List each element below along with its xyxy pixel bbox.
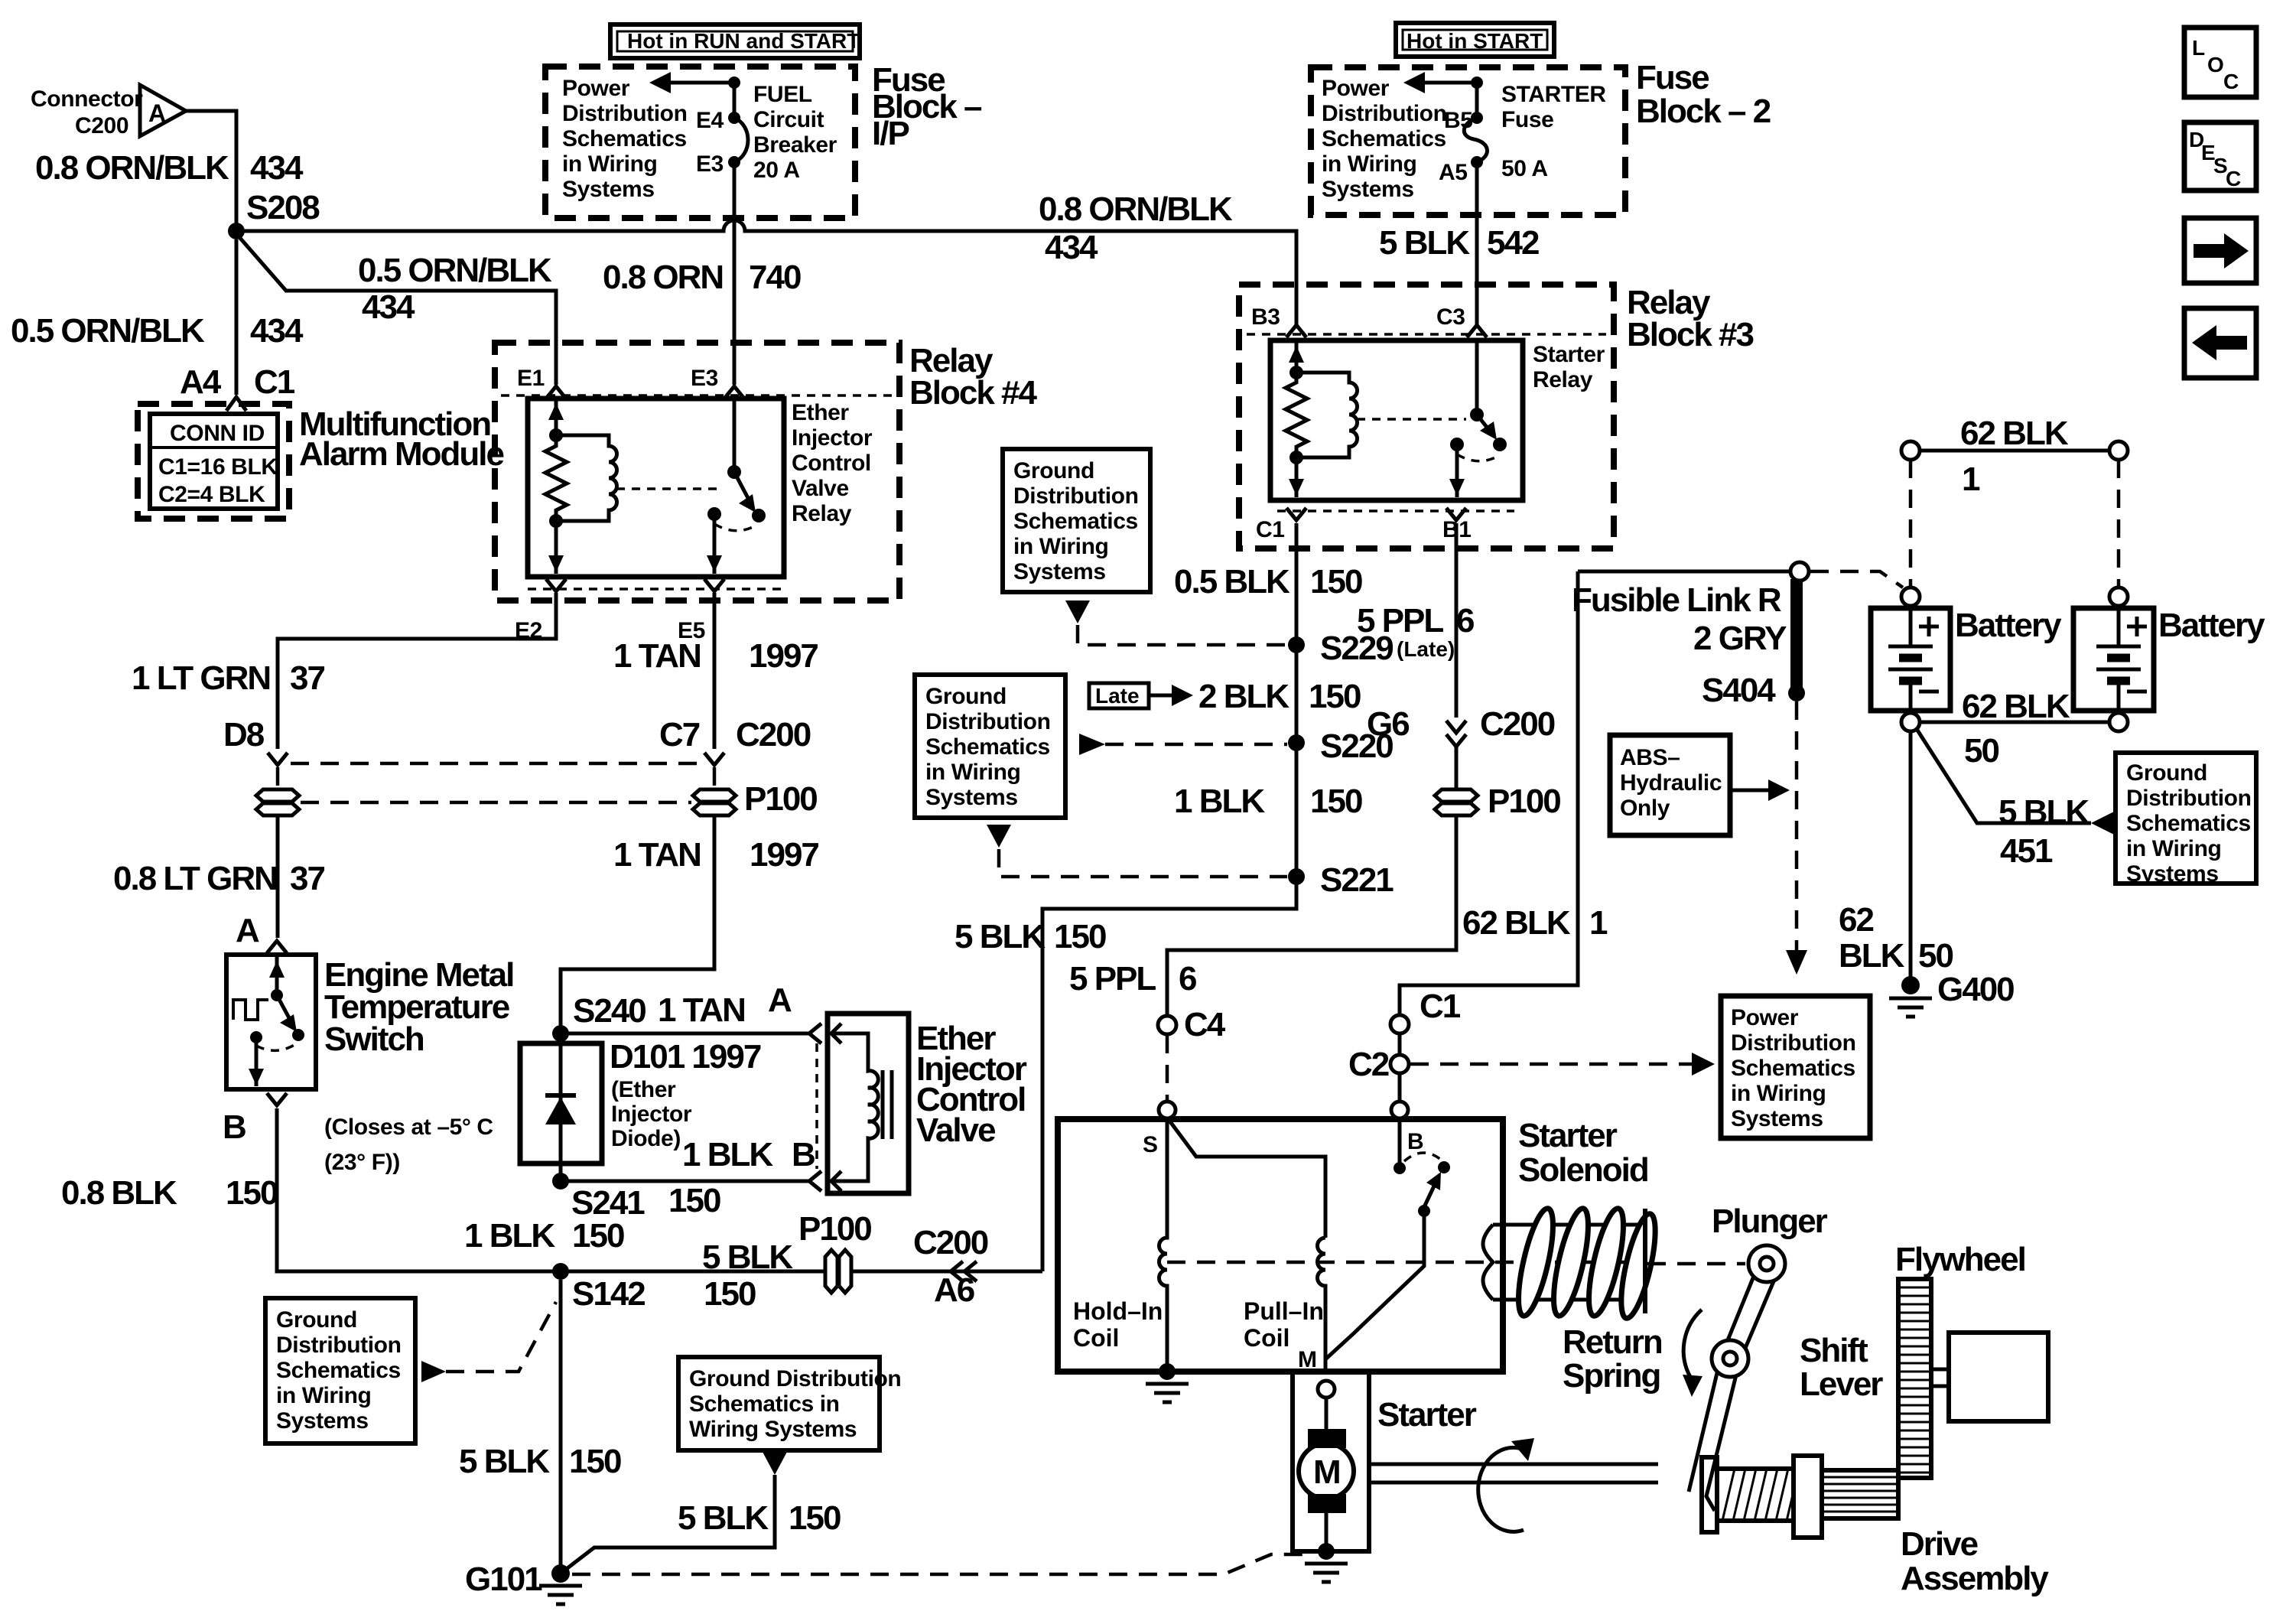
svg-text:Ether: Ether bbox=[792, 400, 849, 425]
svg-text:6: 6 bbox=[1456, 602, 1474, 640]
svg-text:0.8 LT GRN: 0.8 LT GRN bbox=[113, 860, 277, 897]
ground distribution box bottom right bbox=[678, 1357, 880, 1450]
arrow to power distribution bbox=[1471, 76, 1483, 89]
svg-text:37: 37 bbox=[290, 659, 324, 697]
svg-text:150: 150 bbox=[1310, 563, 1362, 600]
svg-text:Injector: Injector bbox=[611, 1102, 692, 1127]
svg-text:Battery: Battery bbox=[2158, 607, 2265, 644]
svg-text:1 LT GRN: 1 LT GRN bbox=[132, 659, 270, 697]
svg-text:0.8 ORN/BLK: 0.8 ORN/BLK bbox=[35, 149, 229, 187]
svg-text:0.5 ORN/BLK: 0.5 ORN/BLK bbox=[358, 252, 552, 289]
svg-text:Battery: Battery bbox=[1955, 607, 2062, 644]
wire 1 TAN A to valve pin A bbox=[561, 1032, 809, 1036]
svg-text:Schematics in: Schematics in bbox=[689, 1391, 840, 1417]
svg-text:P100: P100 bbox=[744, 780, 817, 818]
svg-text:BLK: BLK bbox=[1839, 937, 1905, 975]
svg-text:in Wiring: in Wiring bbox=[1013, 534, 1108, 559]
resistor bbox=[545, 435, 567, 521]
wire 5 BLK 451 bbox=[1917, 729, 2091, 823]
svg-text:1: 1 bbox=[1589, 904, 1608, 942]
curved arrow bbox=[1683, 1310, 1702, 1377]
right arrow box bbox=[2184, 218, 2256, 283]
switch internals bbox=[275, 955, 279, 995]
svg-text:S142: S142 bbox=[572, 1275, 645, 1313]
svg-text:M: M bbox=[1298, 1347, 1317, 1372]
svg-text:D101 1997: D101 1997 bbox=[610, 1038, 761, 1076]
drive shaft bbox=[1369, 1463, 1658, 1466]
connector C2 bbox=[1390, 1055, 1409, 1073]
dashed from G101 to starter ground bbox=[572, 1554, 1305, 1574]
left arrow box bbox=[2184, 308, 2256, 378]
svg-text:L: L bbox=[2192, 36, 2205, 60]
SEC5 bbox=[1058, 1102, 1648, 1402]
battery 1 bbox=[1901, 587, 1920, 606]
drive assembly bbox=[1702, 1457, 1717, 1532]
svg-text:Fuse: Fuse bbox=[1501, 107, 1553, 132]
svg-text:S208: S208 bbox=[246, 189, 320, 226]
node S221 bbox=[1288, 868, 1305, 885]
connector C200 triangle A bbox=[140, 85, 186, 136]
ground G101 bbox=[551, 1564, 570, 1583]
svg-text:5 BLK: 5 BLK bbox=[1379, 224, 1470, 262]
relay coil side E1-E2 bbox=[554, 399, 558, 435]
svg-text:Valve: Valve bbox=[792, 476, 849, 501]
svg-text:1997: 1997 bbox=[750, 836, 818, 874]
svg-text:M: M bbox=[1313, 1453, 1340, 1491]
battery top wire 62 BLK 1 bbox=[1901, 441, 1920, 460]
SEC1 bbox=[495, 342, 1038, 643]
svg-text:Alarm Module: Alarm Module bbox=[299, 435, 503, 473]
svg-text:G6: G6 bbox=[1367, 705, 1409, 743]
mechanical dashed link bbox=[1167, 1261, 1637, 1264]
svg-text:P100: P100 bbox=[798, 1210, 871, 1248]
ground distribution box 1 bbox=[1003, 449, 1150, 592]
svg-text:E3: E3 bbox=[691, 366, 718, 391]
svg-text:740: 740 bbox=[749, 259, 801, 296]
svg-text:Systems: Systems bbox=[925, 785, 1018, 810]
svg-text:S404: S404 bbox=[1702, 672, 1776, 709]
conn id box bbox=[150, 414, 278, 509]
multifunction alarm module dashed box bbox=[138, 404, 289, 519]
svg-text:Distribution: Distribution bbox=[1322, 101, 1447, 126]
svg-text:C200: C200 bbox=[913, 1224, 988, 1261]
node S142 bbox=[552, 1263, 569, 1280]
svg-text:B3: B3 bbox=[1251, 304, 1280, 330]
svg-text:1: 1 bbox=[1962, 461, 1980, 498]
svg-text:C3: C3 bbox=[1436, 304, 1465, 330]
svg-text:Only: Only bbox=[1620, 796, 1670, 821]
relay coil side B3-C1 bbox=[1295, 340, 1299, 373]
fusible link bar bbox=[1790, 579, 1803, 688]
svg-text:A5: A5 bbox=[1439, 160, 1468, 185]
svg-text:Coil: Coil bbox=[1244, 1324, 1289, 1352]
svg-text:Schematics: Schematics bbox=[1731, 1056, 1855, 1081]
svg-text:6: 6 bbox=[1179, 960, 1196, 998]
fuse block 2 dashed box bbox=[1311, 67, 1625, 215]
wire down to G101, 5 BLK 150 bbox=[559, 1280, 563, 1568]
svg-text:Plunger: Plunger bbox=[1712, 1203, 1828, 1240]
svg-text:Schematics: Schematics bbox=[925, 734, 1050, 760]
relay block 3 dashed box bbox=[1239, 285, 1614, 548]
svg-text:C1=16 BLK: C1=16 BLK bbox=[158, 454, 278, 480]
starter solenoid box bbox=[1058, 1119, 1503, 1372]
svg-text:150: 150 bbox=[1309, 678, 1361, 715]
svg-text:Ground: Ground bbox=[925, 684, 1007, 709]
svg-text:Hot in RUN and START: Hot in RUN and START bbox=[627, 29, 860, 53]
svg-text:Ground: Ground bbox=[2126, 760, 2207, 786]
wire P100 to engine switch A, 0.8 LT GRN 37 bbox=[276, 814, 280, 938]
hold-in coil bbox=[1159, 1118, 1167, 1369]
svg-text:A4: A4 bbox=[180, 363, 222, 401]
svg-text:150: 150 bbox=[226, 1174, 278, 1212]
svg-text:Ground: Ground bbox=[276, 1307, 357, 1333]
connector C4 bbox=[1158, 1016, 1176, 1034]
svg-text:Starter: Starter bbox=[1377, 1396, 1477, 1434]
svg-text:1 BLK: 1 BLK bbox=[464, 1217, 555, 1255]
svg-text:C: C bbox=[2223, 70, 2239, 93]
svg-text:S240: S240 bbox=[573, 992, 646, 1030]
svg-text:Schematics: Schematics bbox=[562, 126, 687, 151]
node S229 bbox=[1288, 636, 1305, 653]
svg-text:0.5 BLK: 0.5 BLK bbox=[1174, 563, 1290, 600]
svg-text:Starter: Starter bbox=[1533, 342, 1605, 367]
svg-text:434: 434 bbox=[362, 288, 415, 326]
svg-text:C1: C1 bbox=[1420, 988, 1461, 1025]
relay coil bbox=[1296, 373, 1358, 457]
svg-text:Fuse: Fuse bbox=[1636, 59, 1709, 96]
svg-text:C: C bbox=[2226, 167, 2241, 190]
svg-text:S: S bbox=[1143, 1132, 1158, 1157]
svg-text:C1: C1 bbox=[1256, 517, 1285, 542]
svg-text:150: 150 bbox=[1310, 783, 1362, 820]
return spring bbox=[1511, 1206, 1662, 1321]
svg-text:Flywheel: Flywheel bbox=[1895, 1241, 2025, 1278]
svg-text:1997: 1997 bbox=[749, 637, 818, 675]
shift lever bbox=[1689, 1271, 1756, 1492]
ether injector control valve bbox=[809, 1024, 821, 1043]
node S240 bbox=[552, 1025, 569, 1042]
svg-text:Systems: Systems bbox=[1013, 559, 1106, 584]
svg-text:A: A bbox=[236, 912, 259, 949]
wire B down to S142, 0.8 BLK 150 bbox=[277, 1108, 557, 1271]
SEC4 bbox=[1572, 562, 1903, 975]
svg-text:(Late): (Late) bbox=[1397, 637, 1455, 661]
svg-text:D8: D8 bbox=[223, 716, 265, 753]
svg-text:in Wiring: in Wiring bbox=[276, 1383, 371, 1408]
svg-text:Block #3: Block #3 bbox=[1627, 316, 1754, 353]
relay switch E3-E5 bbox=[733, 399, 737, 472]
svg-text:(23° F)): (23° F)) bbox=[324, 1150, 400, 1175]
wire 0.8 ORN 740 down to relay block 4 E3 bbox=[733, 162, 737, 385]
dashed connector line D8-C7 bbox=[291, 762, 702, 766]
svg-text:C2: C2 bbox=[1348, 1046, 1389, 1083]
svg-text:C200: C200 bbox=[75, 113, 128, 138]
svg-text:Breaker: Breaker bbox=[753, 132, 837, 158]
svg-text:150: 150 bbox=[569, 1443, 621, 1480]
svg-text:434: 434 bbox=[250, 149, 304, 187]
relay switch C3-B1 bbox=[1475, 340, 1479, 415]
arrow to power distribution bbox=[728, 76, 740, 89]
svg-text:Ground Distribution: Ground Distribution bbox=[689, 1366, 901, 1391]
wire E5 to C7, 1 TAN 1997 bbox=[713, 593, 717, 749]
svg-text:1 TAN: 1 TAN bbox=[613, 836, 701, 874]
svg-text:Return: Return bbox=[1563, 1323, 1662, 1361]
svg-text:(Closes at –5° C: (Closes at –5° C bbox=[324, 1115, 493, 1140]
svg-text:Hot in START: Hot in START bbox=[1407, 29, 1543, 53]
wire 5 BLK 542 down to relay block 3 C3 bbox=[1475, 162, 1479, 324]
svg-text:E4: E4 bbox=[696, 108, 724, 133]
wire from connector A to S208 bbox=[186, 111, 236, 226]
svg-text:Connector: Connector bbox=[31, 86, 143, 112]
svg-text:Schematics: Schematics bbox=[2126, 811, 2251, 836]
starter motor box bbox=[1293, 1372, 1369, 1551]
wire S142 to P100 and C200 A6, 5 BLK 150 bbox=[564, 1270, 1042, 1274]
wire E2 to D8, 1 LT GRN 37 bbox=[278, 593, 556, 749]
ground distribution box right bbox=[2116, 753, 2256, 884]
svg-text:B: B bbox=[223, 1108, 246, 1146]
svg-text:Schematics: Schematics bbox=[1013, 509, 1138, 534]
svg-text:in Wiring: in Wiring bbox=[925, 760, 1020, 785]
flywheel bbox=[1898, 1279, 1931, 1478]
connector C1 bbox=[1390, 1015, 1409, 1033]
fuel circuit breaker bbox=[733, 83, 737, 118]
svg-text:in Wiring: in Wiring bbox=[1731, 1081, 1826, 1106]
relay block 4 dashed box bbox=[495, 343, 899, 600]
svg-text:Lever: Lever bbox=[1800, 1365, 1883, 1403]
svg-text:S241: S241 bbox=[571, 1184, 645, 1222]
svg-text:50: 50 bbox=[1918, 937, 1953, 975]
svg-text:Distribution: Distribution bbox=[276, 1333, 402, 1358]
svg-text:451: 451 bbox=[2000, 832, 2053, 870]
solenoid ground bbox=[1159, 1363, 1176, 1380]
svg-text:37: 37 bbox=[290, 860, 324, 897]
node S220 bbox=[1288, 734, 1305, 751]
svg-text:62: 62 bbox=[1839, 901, 1873, 939]
svg-text:in Wiring: in Wiring bbox=[2126, 836, 2221, 861]
terminal S bbox=[1159, 1102, 1176, 1118]
svg-text:Coil: Coil bbox=[1073, 1324, 1119, 1352]
svg-text:150: 150 bbox=[704, 1275, 756, 1313]
svg-text:1 TAN: 1 TAN bbox=[613, 637, 701, 675]
svg-text:Valve: Valve bbox=[916, 1111, 995, 1149]
connector face dashed line top bbox=[501, 394, 893, 397]
svg-text:C4: C4 bbox=[1184, 1006, 1226, 1043]
dashed link to shift lever bbox=[1647, 1262, 1745, 1266]
battery 2 bbox=[2109, 587, 2128, 606]
LOC box bbox=[2184, 28, 2256, 97]
wire to G400 bbox=[1909, 731, 1913, 978]
svg-text:Schematics: Schematics bbox=[276, 1358, 401, 1383]
svg-text:Systems: Systems bbox=[1731, 1106, 1823, 1131]
svg-text:5 PPL: 5 PPL bbox=[1069, 960, 1156, 998]
wire S208 down to multifunction module bbox=[235, 239, 239, 395]
svg-text:0.5 ORN/BLK: 0.5 ORN/BLK bbox=[11, 312, 205, 350]
svg-text:Schematics: Schematics bbox=[1322, 126, 1446, 151]
Hot in RUN and START box bbox=[610, 24, 860, 58]
svg-text:CONN ID: CONN ID bbox=[170, 421, 265, 446]
svg-text:A: A bbox=[768, 981, 792, 1019]
pull-in coil feed bbox=[1169, 1121, 1325, 1238]
starter relay box bbox=[1270, 340, 1523, 500]
svg-text:62 BLK: 62 BLK bbox=[1960, 415, 2069, 452]
svg-text:B: B bbox=[1407, 1129, 1423, 1154]
svg-text:Pull–In: Pull–In bbox=[1244, 1297, 1324, 1325]
pin A4/C1 bbox=[226, 397, 246, 411]
svg-text:5 BLK: 5 BLK bbox=[702, 1238, 793, 1276]
svg-text:I/P: I/P bbox=[872, 115, 909, 152]
svg-text:S221: S221 bbox=[1320, 861, 1394, 899]
dashed C2 to power distribution bbox=[1410, 1063, 1696, 1066]
svg-text:2 GRY: 2 GRY bbox=[1693, 620, 1787, 657]
power distribution box bbox=[1721, 996, 1870, 1138]
wire P100 right down to S240 bbox=[561, 814, 714, 1029]
svg-text:C2=4 BLK: C2=4 BLK bbox=[158, 482, 265, 507]
svg-text:542: 542 bbox=[1487, 224, 1539, 262]
svg-text:C7: C7 bbox=[659, 716, 700, 753]
P100 in-line (horizontal wire) bbox=[825, 1250, 837, 1293]
svg-text:G101: G101 bbox=[465, 1561, 542, 1598]
svg-text:0.8 BLK: 0.8 BLK bbox=[61, 1174, 177, 1212]
svg-text:2 BLK: 2 BLK bbox=[1198, 678, 1289, 715]
svg-text:Distribution: Distribution bbox=[2126, 786, 2252, 811]
svg-text:Starter: Starter bbox=[1518, 1117, 1618, 1154]
starter fuse bbox=[1475, 83, 1479, 118]
diode D101 box bbox=[520, 1043, 602, 1163]
svg-text:50 A: 50 A bbox=[1501, 156, 1548, 181]
svg-text:in Wiring: in Wiring bbox=[1322, 151, 1416, 177]
wire S208 diagonal branch 0.5 ORN/BLK to E1 bbox=[239, 236, 556, 385]
ether injector control valve relay box bbox=[528, 399, 784, 577]
svg-text:Circuit: Circuit bbox=[753, 107, 824, 132]
wire B1 down 5 PPL 6, G6 C200, P100 bbox=[1455, 523, 1459, 718]
svg-text:Block – 2: Block – 2 bbox=[1636, 93, 1771, 130]
dashed from fusible link to battery bbox=[1810, 571, 1903, 587]
svg-text:Fusible Link R: Fusible Link R bbox=[1572, 581, 1781, 619]
svg-text:434: 434 bbox=[1045, 229, 1098, 266]
dashed stubs to P100 bbox=[276, 767, 280, 791]
svg-text:50: 50 bbox=[1964, 732, 1998, 770]
svg-text:Ground: Ground bbox=[1013, 458, 1094, 483]
svg-text:150: 150 bbox=[1054, 918, 1106, 955]
svg-text:Injector: Injector bbox=[792, 425, 873, 451]
svg-text:(Ether: (Ether bbox=[611, 1077, 676, 1102]
svg-text:Diode): Diode) bbox=[611, 1126, 681, 1151]
svg-text:1 BLK: 1 BLK bbox=[1174, 783, 1265, 820]
svg-text:1 BLK: 1 BLK bbox=[682, 1136, 773, 1173]
svg-text:STARTER: STARTER bbox=[1501, 82, 1606, 107]
svg-text:Distribution: Distribution bbox=[1013, 483, 1139, 509]
svg-text:P100: P100 bbox=[1488, 783, 1560, 820]
ground distribution box 2 bbox=[915, 675, 1065, 818]
svg-text:Distribution: Distribution bbox=[1731, 1030, 1856, 1056]
SEC3 bbox=[1239, 284, 1754, 548]
rotation arrow bbox=[1478, 1447, 1529, 1531]
wire C1 down to S229 S220 S221, 0.5 BLK 150 bbox=[1042, 523, 1296, 1271]
svg-text:Systems: Systems bbox=[562, 177, 655, 202]
svg-text:Late: Late bbox=[1095, 684, 1140, 708]
svg-text:1 TAN: 1 TAN bbox=[658, 991, 745, 1029]
dashed line P100-P100 bbox=[301, 801, 691, 805]
svg-text:Hydraulic: Hydraulic bbox=[1620, 770, 1722, 796]
fuse block I/P dashed box bbox=[545, 67, 855, 218]
solenoid switch from B bbox=[1398, 1118, 1402, 1163]
wire 62 BLK 1 from fusible link to C1 connector bbox=[1400, 571, 1578, 1014]
relay coil bbox=[556, 435, 617, 521]
Hot in START box bbox=[1396, 23, 1554, 57]
svg-text:5 BLK: 5 BLK bbox=[678, 1499, 769, 1537]
svg-text:5 BLK: 5 BLK bbox=[459, 1443, 550, 1480]
svg-text:FUEL: FUEL bbox=[753, 82, 812, 107]
svg-text:Hold–In: Hold–In bbox=[1073, 1297, 1163, 1325]
svg-text:C200: C200 bbox=[736, 716, 811, 753]
svg-text:5 PPL: 5 PPL bbox=[1357, 602, 1443, 640]
svg-text:Switch: Switch bbox=[324, 1020, 424, 1058]
P100 pass-through right bbox=[693, 789, 736, 802]
terminal B bbox=[1391, 1102, 1408, 1118]
svg-text:Wiring Systems: Wiring Systems bbox=[689, 1417, 857, 1442]
svg-text:E1: E1 bbox=[517, 366, 545, 391]
svg-text:Power: Power bbox=[1322, 76, 1390, 101]
svg-text:Spring: Spring bbox=[1563, 1357, 1660, 1395]
diode symbol bbox=[545, 1093, 576, 1098]
Late tag bbox=[1089, 683, 1149, 708]
relay mech dashed link bbox=[616, 487, 724, 490]
svg-text:O: O bbox=[2207, 53, 2224, 76]
svg-text:in Wiring: in Wiring bbox=[562, 151, 657, 177]
svg-text:Power: Power bbox=[1731, 1005, 1799, 1030]
wire 1 BLK B to valve pin B bbox=[561, 1180, 809, 1183]
svg-text:0.8 ORN: 0.8 ORN bbox=[603, 259, 723, 296]
svg-text:Shift: Shift bbox=[1800, 1332, 1868, 1369]
svg-text:20 A: 20 A bbox=[753, 158, 800, 183]
svg-text:Systems: Systems bbox=[1322, 177, 1414, 202]
svg-text:Block #4: Block #4 bbox=[909, 374, 1038, 412]
svg-text:C200: C200 bbox=[1480, 705, 1555, 743]
SEC2 bbox=[520, 981, 1027, 1222]
svg-text:62 BLK: 62 BLK bbox=[1462, 904, 1571, 942]
svg-text:C1: C1 bbox=[254, 363, 295, 401]
wire S208 horizontal to relay block 3 B3, hop over 0.8 ORN vertical bbox=[236, 220, 1296, 324]
DESC box bbox=[2184, 122, 2256, 190]
svg-text:Solenoid: Solenoid bbox=[1518, 1151, 1648, 1189]
svg-text:B: B bbox=[792, 1136, 815, 1173]
svg-text:150: 150 bbox=[789, 1499, 841, 1537]
svg-text:434: 434 bbox=[250, 312, 304, 350]
P100 pass-through left bbox=[256, 789, 299, 802]
svg-text:Drive: Drive bbox=[1901, 1525, 1978, 1563]
battery bottom wire 62 BLK 50 bbox=[1901, 713, 1920, 731]
svg-text:A6: A6 bbox=[934, 1271, 974, 1309]
node S208 bbox=[228, 223, 245, 239]
svg-text:G400: G400 bbox=[1937, 971, 2014, 1008]
fusible link R wire bbox=[1578, 570, 1790, 574]
svg-text:5 BLK: 5 BLK bbox=[1998, 793, 2089, 831]
svg-text:ABS–: ABS– bbox=[1620, 745, 1680, 770]
ABS-Hydraulic Only box bbox=[1610, 735, 1730, 835]
svg-text:Distribution: Distribution bbox=[925, 709, 1051, 734]
svg-text:62 BLK: 62 BLK bbox=[1962, 688, 2070, 725]
svg-text:5 BLK: 5 BLK bbox=[954, 918, 1046, 955]
ground distribution box bottom left bbox=[265, 1298, 415, 1443]
svg-text:A: A bbox=[148, 99, 166, 127]
svg-text:150: 150 bbox=[668, 1182, 720, 1219]
svg-text:E3: E3 bbox=[696, 151, 724, 177]
svg-text:Assembly: Assembly bbox=[1901, 1560, 2049, 1597]
plunger cylinder with break bbox=[1483, 1225, 1641, 1300]
svg-text:150: 150 bbox=[572, 1217, 624, 1255]
svg-text:Control: Control bbox=[792, 451, 871, 476]
svg-text:Power: Power bbox=[562, 76, 630, 101]
